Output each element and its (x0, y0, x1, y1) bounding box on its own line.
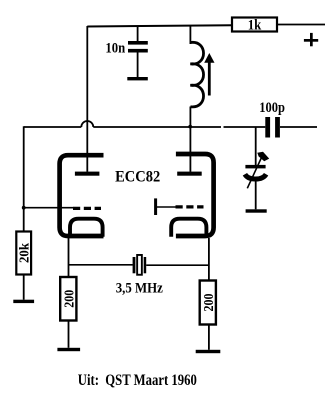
plate anode bar right triode (177, 172, 202, 176)
svg-text:ECC82: ECC82 (115, 169, 160, 186)
wire crystal link right (146, 264, 209, 266)
grid terminal bar right triode (154, 198, 157, 215)
arrow beside L1 (204, 53, 214, 96)
resistor R3 200 left (60, 277, 77, 321)
capacitor C1 10n (128, 26, 148, 77)
plate anode bar left triode (75, 172, 100, 176)
grid wire left triode (24, 207, 73, 209)
svg-text:3,5 MHz: 3,5 MHz (116, 280, 163, 296)
inductor L1 (190, 25, 203, 127)
variable capacitor C3 (245, 152, 269, 189)
ground bar under R2 (13, 300, 34, 303)
cathode left triode (70, 219, 103, 237)
grid lead right triode (156, 206, 177, 208)
wire top rail right segment (277, 24, 325, 26)
wire crystal link left (69, 264, 133, 266)
node junction dot grid rail (22, 206, 26, 210)
ground bar under C3 (246, 209, 267, 212)
ground bar under R4 (196, 350, 221, 353)
wire top rail left segment (87, 25, 232, 26)
resistor R1 1k (232, 17, 277, 33)
resistor R4 200 right (200, 281, 217, 325)
svg-text:1k: 1k (248, 17, 262, 33)
node junction dot L1 bottom (188, 125, 192, 129)
svg-text:100p: 100p (259, 100, 285, 116)
capacitor C2 100p (265, 117, 280, 138)
wire variable cap branch upper (255, 127, 257, 166)
svg-text:20k: 20k (18, 243, 33, 263)
svg-text:10n: 10n (105, 41, 125, 57)
plate lead right triode (189, 127, 191, 172)
plus supply terminal + (304, 33, 318, 46)
tube U1 ECC82 left envelope (60, 155, 104, 236)
wire left cathode lead (68, 238, 70, 277)
svg-text:200: 200 (202, 294, 217, 312)
ground bar under R3 (57, 348, 80, 351)
crystal X1 (133, 255, 147, 275)
cathode right triode (171, 219, 206, 237)
svg-text:200: 200 (62, 290, 77, 308)
tube U1 ECC82 right envelope (176, 154, 214, 236)
wire R3 bottom lead (68, 321, 70, 348)
svg-text:Uit: QST Maart 1960: Uit: QST Maart 1960 (78, 372, 197, 389)
grid dashes left triode (73, 207, 101, 210)
wire left plate lead vertical (86, 26, 88, 172)
ground bar under C1 (127, 77, 148, 80)
wire variable cap branch lower (255, 179, 257, 210)
wire right cathode lead (208, 238, 210, 281)
wire R2 bottom lead (23, 275, 25, 300)
wire R4 bottom lead (208, 325, 210, 350)
resistor R2 20k (16, 232, 32, 275)
grid dashes right triode (176, 205, 204, 208)
wire mid rail with hop over plate lead (24, 121, 317, 127)
wire left rail vertical (23, 126, 25, 231)
